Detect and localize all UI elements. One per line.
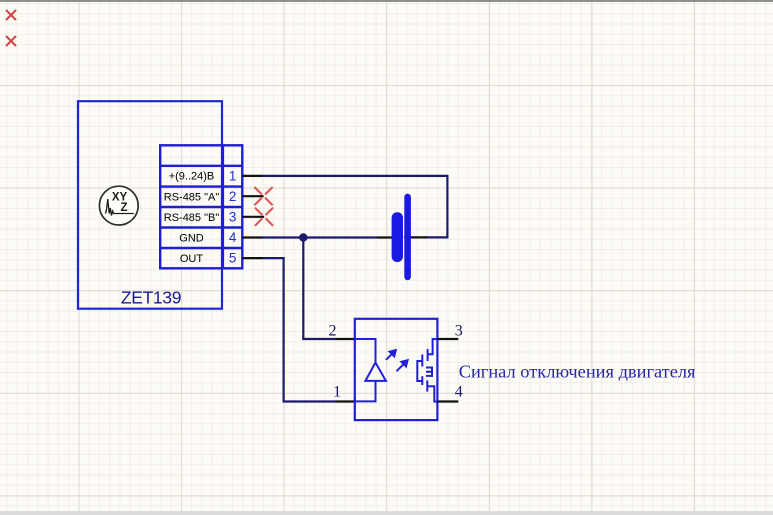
svg-text:GND: GND [179, 233, 204, 245]
photo-FET [417, 339, 437, 402]
svg-text:ZET139: ZET139 [121, 288, 181, 308]
svg-text:4: 4 [229, 230, 237, 245]
error marker top-left 2 [6, 36, 16, 46]
pin 3 stub [242, 216, 264, 218]
svg-text:3: 3 [455, 323, 463, 340]
wire OUT to optocoupler pin 1 [264, 258, 336, 401]
capacitor stub left [377, 236, 403, 238]
svg-text:1: 1 [333, 384, 341, 401]
optocoupler pin 3 stub [437, 338, 458, 340]
wire GND to capacitor left [262, 236, 377, 238]
svg-text:3: 3 [229, 210, 237, 225]
wire pin1 to capacitor right [262, 176, 447, 238]
connector table [160, 145, 242, 268]
optocoupler pin 4 stub [437, 400, 458, 402]
no-connect cross pin 2 [255, 188, 272, 205]
bottom window edge band [0, 511, 773, 515]
svg-text:4: 4 [455, 384, 463, 401]
pin 1 stub [242, 175, 263, 177]
svg-text:1: 1 [229, 168, 237, 183]
wire junction to optocoupler pin 2 [303, 238, 336, 340]
optocoupler pin 1 stub [336, 400, 355, 402]
capacitor stub right [404, 236, 427, 238]
capacitor C1 right plate [404, 194, 411, 281]
ZET139 logo circle [99, 186, 138, 225]
pin 4 stub [242, 236, 263, 238]
svg-text:RS-485 "B": RS-485 "B" [164, 212, 220, 224]
pin 5 stub [242, 257, 264, 259]
svg-text:+(9..24)В: +(9..24)В [169, 171, 215, 183]
optocoupler pin 2 stub [336, 338, 355, 340]
svg-text:5: 5 [229, 251, 237, 266]
top window edge [0, 0, 773, 2]
svg-text:2: 2 [229, 189, 237, 204]
LED light arrows [386, 350, 408, 371]
error marker top-left 1 [6, 10, 16, 20]
svg-text:Z: Z [120, 202, 127, 214]
svg-text:2: 2 [329, 323, 337, 340]
optocoupler LED [355, 339, 386, 401]
svg-text:Сигнал отключения двигателя: Сигнал отключения двигателя [459, 361, 696, 381]
svg-text:RS-485 "A": RS-485 "A" [164, 191, 220, 203]
capacitor C1 left plate [392, 212, 403, 262]
junction dot [299, 233, 307, 241]
optocoupler U1 body [355, 319, 438, 420]
module ZET139 outline [78, 101, 222, 309]
no-connect cross pin 3 [256, 208, 273, 225]
svg-text:OUT: OUT [180, 253, 204, 265]
pin 2 stub [242, 195, 263, 197]
